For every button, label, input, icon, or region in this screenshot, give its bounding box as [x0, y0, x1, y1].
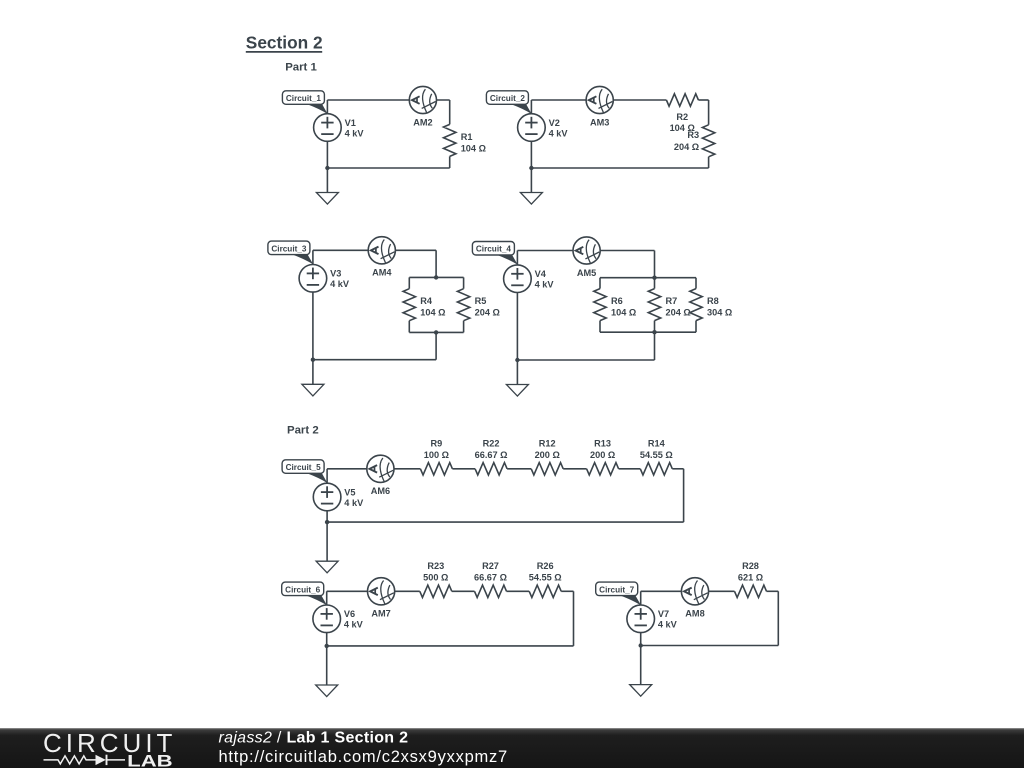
svg-text:Circuit_4: Circuit_4: [476, 245, 511, 254]
svg-text:V3: V3: [330, 269, 341, 279]
svg-text:104 Ω: 104 Ω: [461, 143, 486, 153]
svg-text:R5: R5: [475, 296, 487, 306]
svg-text:AM4: AM4: [372, 268, 392, 278]
svg-text:AM5: AM5: [577, 268, 596, 278]
svg-text:R1: R1: [461, 132, 473, 142]
svg-text:304 Ω: 304 Ω: [707, 308, 732, 318]
svg-text:R7: R7: [666, 296, 678, 306]
svg-text:V5: V5: [344, 487, 355, 497]
svg-text:Circuit_2: Circuit_2: [490, 94, 525, 103]
svg-text:200 Ω: 200 Ω: [590, 450, 615, 460]
svg-text:R23: R23: [427, 561, 444, 571]
svg-text:R4: R4: [420, 296, 433, 306]
svg-text:4 kV: 4 kV: [344, 620, 364, 630]
svg-text:204 Ω: 204 Ω: [674, 142, 699, 152]
svg-text:R12: R12: [539, 438, 556, 448]
svg-text:4 kV: 4 kV: [535, 280, 555, 290]
svg-text:54.55 Ω: 54.55 Ω: [640, 450, 673, 460]
svg-text:V6: V6: [344, 609, 355, 619]
svg-text:4 kV: 4 kV: [345, 128, 365, 138]
svg-text:AM8: AM8: [685, 609, 704, 619]
svg-text:http://circuitlab.com/c2xsx9yx: http://circuitlab.com/c2xsx9yxxpmz7: [219, 748, 508, 766]
svg-text:rajass2 / Lab 1 Section 2: rajass2 / Lab 1 Section 2: [219, 729, 409, 746]
svg-text:V4: V4: [535, 269, 547, 279]
svg-text:R28: R28: [742, 561, 759, 571]
svg-text:AM3: AM3: [590, 117, 609, 127]
svg-text:54.55 Ω: 54.55 Ω: [529, 572, 562, 582]
svg-text:66.67 Ω: 66.67 Ω: [474, 572, 507, 582]
svg-text:R3: R3: [687, 130, 699, 140]
svg-text:204 Ω: 204 Ω: [475, 308, 500, 318]
svg-text:AM7: AM7: [371, 609, 390, 619]
svg-text:Part 2: Part 2: [287, 425, 319, 437]
svg-text:4 kV: 4 kV: [344, 498, 364, 508]
svg-text:R22: R22: [483, 438, 500, 448]
svg-text:R6: R6: [611, 296, 623, 306]
svg-text:AM2: AM2: [413, 117, 432, 127]
svg-text:AM6: AM6: [371, 486, 390, 496]
svg-text:204 Ω: 204 Ω: [666, 308, 691, 318]
svg-text:Circuit_7: Circuit_7: [599, 585, 634, 594]
svg-text:100 Ω: 100 Ω: [424, 450, 449, 460]
svg-text:104 Ω: 104 Ω: [420, 308, 445, 318]
svg-text:R2: R2: [676, 112, 688, 122]
svg-text:R27: R27: [482, 561, 499, 571]
svg-text:R14: R14: [648, 438, 666, 448]
svg-text:R13: R13: [594, 438, 611, 448]
svg-text:Circuit_1: Circuit_1: [286, 94, 321, 103]
svg-text:Section 2: Section 2: [246, 33, 323, 53]
svg-text:R9: R9: [431, 438, 443, 448]
svg-text:LAB: LAB: [127, 752, 173, 768]
svg-text:66.67 Ω: 66.67 Ω: [475, 450, 508, 460]
svg-text:V7: V7: [658, 609, 669, 619]
svg-text:4 kV: 4 kV: [330, 279, 350, 289]
svg-text:621 Ω: 621 Ω: [738, 572, 763, 582]
svg-text:500 Ω: 500 Ω: [423, 572, 448, 582]
svg-text:R8: R8: [707, 296, 719, 306]
svg-text:Part 1: Part 1: [285, 62, 317, 74]
svg-text:Circuit_5: Circuit_5: [286, 463, 321, 472]
svg-text:Circuit_3: Circuit_3: [271, 244, 306, 253]
svg-text:R26: R26: [537, 561, 554, 571]
svg-text:200 Ω: 200 Ω: [535, 450, 560, 460]
svg-text:Circuit_6: Circuit_6: [285, 585, 320, 594]
svg-text:V1: V1: [345, 118, 356, 128]
svg-text:104 Ω: 104 Ω: [611, 308, 636, 318]
svg-text:4 kV: 4 kV: [549, 128, 569, 138]
svg-text:4 kV: 4 kV: [658, 620, 678, 630]
svg-text:V2: V2: [549, 118, 560, 128]
